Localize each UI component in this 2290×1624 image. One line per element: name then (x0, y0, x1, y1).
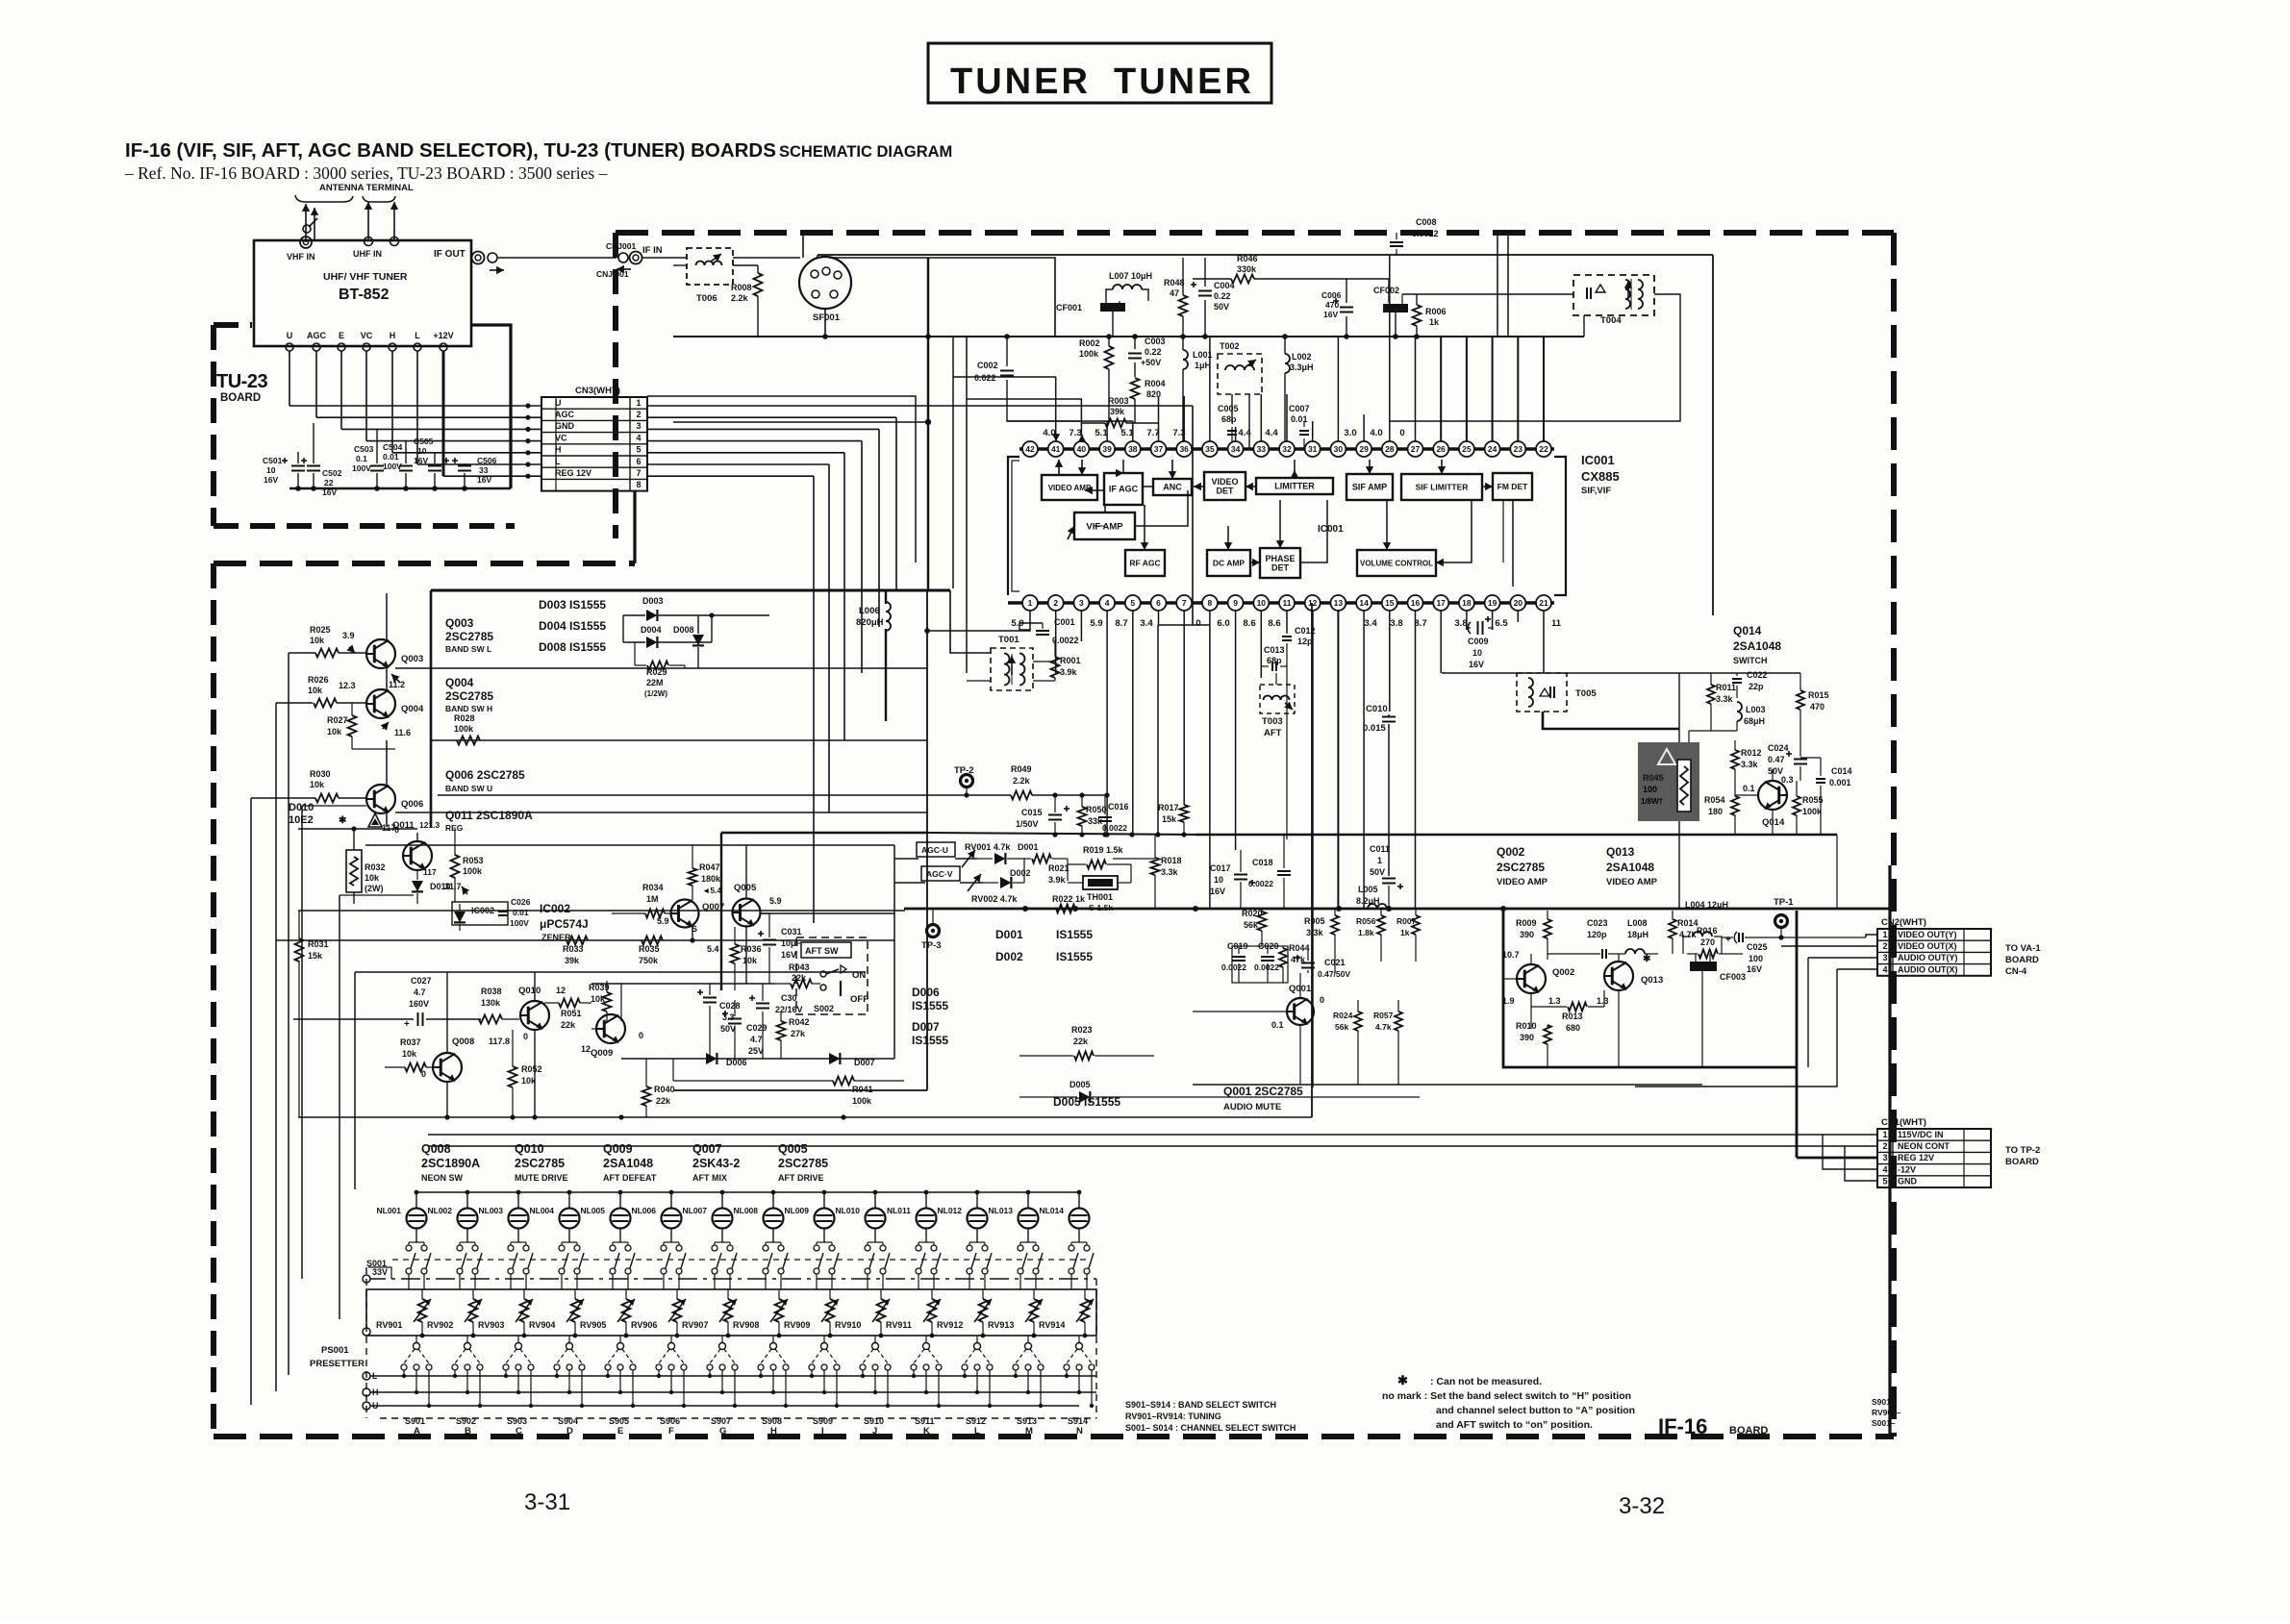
wire R046 rail (1193, 278, 1231, 280)
svg-text:12: 12 (556, 986, 566, 995)
svg-text:37: 37 (1154, 444, 1164, 454)
svg-text:3.3k: 3.3k (1716, 694, 1734, 704)
svg-text:10: 10 (1472, 648, 1482, 658)
svg-text:4.4: 4.4 (1238, 428, 1251, 438)
svg-text:R006: R006 (1425, 307, 1447, 316)
wire capacitor ground bus (289, 487, 511, 490)
svg-text:BAND SW L: BAND SW L (445, 644, 491, 654)
switch S001 section 13 (1018, 1245, 1023, 1251)
svg-text:100k: 100k (454, 724, 474, 734)
wires tuner rows to CN3 (289, 405, 541, 407)
svg-text:D007: D007 (912, 1020, 940, 1034)
svg-text:Q014: Q014 (1733, 624, 1762, 637)
svg-text:S914: S914 (1068, 1416, 1088, 1426)
svg-text:Q002: Q002 (1497, 845, 1525, 859)
svg-text:Q010: Q010 (515, 1142, 544, 1156)
wire Q005 out (760, 912, 894, 914)
lamp NL002 (458, 1209, 478, 1229)
svg-text:L: L (415, 331, 420, 340)
svg-text:✱: ✱ (339, 815, 347, 826)
svg-text:VIF AMP: VIF AMP (1086, 521, 1123, 532)
switch AFT SW (796, 937, 868, 1014)
svg-text:NL008: NL008 (733, 1206, 758, 1215)
svg-text:Q008: Q008 (452, 1037, 474, 1047)
svg-text:1: 1 (1882, 930, 1887, 939)
svg-text:100V: 100V (510, 918, 529, 928)
svg-text:3: 3 (1882, 953, 1887, 962)
wire pin12 long (1311, 603, 1313, 1117)
svg-text:S002: S002 (814, 1004, 834, 1013)
svg-text:RV902: RV902 (427, 1320, 453, 1330)
wire y268 right segment (829, 258, 1055, 337)
svg-text:470: 470 (1810, 702, 1824, 712)
svg-text:T005: T005 (1575, 688, 1597, 699)
svg-text:CF001: CF001 (1056, 303, 1082, 312)
svg-text:NL014: NL014 (1039, 1206, 1064, 1215)
svg-text:0.001: 0.001 (1829, 778, 1851, 787)
switch S001 section 11 (916, 1245, 921, 1251)
wires CN3 right drops (1192, 406, 1194, 625)
svg-text:RV905: RV905 (580, 1320, 606, 1330)
svg-text:0: 0 (1399, 428, 1404, 438)
svg-text:4: 4 (1882, 1164, 1887, 1174)
svg-text:S909: S909 (813, 1416, 833, 1426)
svg-text:1/50V: 1/50V (1016, 819, 1039, 829)
svg-text:VOLUME CONTROL: VOLUME CONTROL (1360, 559, 1433, 567)
svg-text:2SC2785: 2SC2785 (515, 1157, 565, 1170)
svg-text:5: 5 (1130, 598, 1135, 608)
svg-text:MUTE DRIVE: MUTE DRIVE (515, 1173, 568, 1183)
svg-text:C006: C006 (1321, 290, 1342, 300)
svg-text:0: 0 (1195, 618, 1200, 629)
svg-text:S908: S908 (762, 1416, 782, 1426)
svg-text:R021: R021 (1048, 863, 1070, 873)
svg-text:41: 41 (1051, 444, 1061, 454)
svg-text:10E2: 10E2 (289, 814, 314, 826)
svg-text:12p: 12p (1297, 637, 1313, 646)
svg-text:DET: DET (1217, 487, 1235, 496)
svg-text:14: 14 (1359, 598, 1369, 608)
svg-text:7: 7 (636, 468, 641, 478)
svg-text:S907: S907 (711, 1416, 731, 1426)
svg-text:3.9k: 3.9k (1048, 875, 1067, 885)
svg-text:56k: 56k (1244, 920, 1259, 930)
svg-text:N: N (1076, 1426, 1083, 1437)
switch S001 section 12 (967, 1245, 972, 1251)
svg-text:DET: DET (1271, 563, 1290, 573)
svg-text:22: 22 (324, 478, 334, 487)
svg-text:NEON SW: NEON SW (421, 1173, 464, 1183)
svg-text:CN1(WHT): CN1(WHT) (1881, 1117, 1926, 1128)
svg-text:5.1: 5.1 (1095, 428, 1108, 438)
svg-text:11: 11 (1551, 618, 1562, 629)
svg-text:Q004: Q004 (445, 676, 474, 689)
svg-text:R011: R011 (1716, 683, 1736, 692)
svg-text:3.3μH: 3.3μH (1290, 362, 1314, 372)
svg-text:SF001: SF001 (813, 312, 841, 323)
svg-text:S911: S911 (915, 1416, 935, 1426)
svg-text:T001: T001 (998, 635, 1019, 645)
svg-text:CNJ001: CNJ001 (606, 241, 636, 251)
svg-text:S901–S914 : BAND SELECT SWITCH: S901–S914 : BAND SELECT SWITCH (1125, 1400, 1276, 1410)
svg-text:CF003: CF003 (1720, 972, 1746, 982)
block VIF AMP (1074, 512, 1135, 539)
wires T001 hookup (1033, 661, 1055, 662)
svg-text:3.8: 3.8 (1454, 618, 1467, 629)
svg-text:PHASE: PHASE (1265, 554, 1295, 563)
switch S001 section 14 (1069, 1245, 1074, 1251)
wire pin1 jog (1019, 623, 1043, 630)
svg-text:R027: R027 (327, 715, 348, 725)
block VIDEO DET (1204, 472, 1246, 500)
svg-text:RV911: RV911 (886, 1320, 912, 1330)
switch S901 (414, 1343, 420, 1350)
svg-text:RV912: RV912 (937, 1320, 963, 1330)
svg-text:3: 3 (636, 421, 641, 431)
svg-text:C008: C008 (1416, 217, 1437, 227)
svg-text:100k: 100k (463, 866, 483, 876)
pot RV910 (877, 1299, 886, 1322)
svg-text:68p: 68p (1267, 656, 1282, 665)
svg-text:NL012: NL012 (937, 1206, 962, 1215)
svg-text:50V: 50V (1370, 867, 1385, 877)
svg-text:R005: R005 (1304, 916, 1325, 926)
svg-text:RV907: RV907 (682, 1320, 708, 1330)
svg-text:L002: L002 (1292, 352, 1312, 362)
svg-text:19: 19 (1488, 598, 1497, 608)
svg-text:VIDEO: VIDEO (1211, 477, 1238, 487)
svg-text:Q011 2SC1890A: Q011 2SC1890A (445, 809, 533, 822)
svg-text:R042: R042 (789, 1017, 810, 1027)
svg-text:2: 2 (1882, 941, 1887, 951)
block LIMITTER (1256, 478, 1333, 494)
svg-text:1M: 1M (646, 894, 659, 904)
svg-text:NL013: NL013 (988, 1206, 1013, 1215)
switch S903 (516, 1343, 522, 1350)
svg-text:22: 22 (1539, 444, 1548, 454)
svg-text:0.0022: 0.0022 (1248, 879, 1273, 888)
block DC AMP (1207, 550, 1250, 576)
svg-text:0.1: 0.1 (1271, 1020, 1284, 1030)
svg-text:D003: D003 (642, 596, 664, 606)
svg-text:33V: 33V (372, 1267, 388, 1277)
svg-text:REG 12V: REG 12V (555, 468, 591, 478)
svg-text:390: 390 (1520, 1033, 1534, 1042)
svg-text:NL004: NL004 (529, 1206, 554, 1215)
svg-text:10: 10 (1257, 598, 1267, 608)
svg-text:3.3k: 3.3k (1161, 867, 1179, 877)
svg-text:R035: R035 (639, 944, 660, 954)
svg-text:IS1555: IS1555 (912, 999, 948, 1012)
svg-text:VIDEO AMP: VIDEO AMP (1606, 877, 1658, 887)
svg-text:IS1555: IS1555 (1056, 950, 1093, 963)
switch S001 section 6 (661, 1245, 667, 1251)
svg-text:R049: R049 (1011, 764, 1032, 774)
svg-text:100: 100 (1749, 954, 1763, 963)
svg-text:S001– S014 : CHANNEL SELECT SW: S001– S014 : CHANNEL SELECT SWITCH (1125, 1423, 1296, 1433)
svg-text:D005: D005 (1070, 1080, 1091, 1089)
svg-text:AGC·V: AGC·V (926, 869, 953, 879)
svg-text:68μH: 68μH (1744, 716, 1765, 726)
svg-text:3.4: 3.4 (1140, 618, 1153, 629)
svg-text:C502: C502 (322, 468, 342, 478)
wire CF002 T004 rail (1402, 293, 1573, 295)
svg-text:IF OUT: IF OUT (434, 249, 466, 260)
svg-text:C016: C016 (1108, 802, 1129, 812)
block FM DET (1493, 473, 1532, 500)
svg-text:R054: R054 (1704, 795, 1725, 805)
svg-text:RF AGC: RF AGC (1129, 559, 1160, 568)
svg-text:D010: D010 (289, 802, 314, 813)
svg-text:2SK43-2: 2SK43-2 (692, 1157, 740, 1170)
switch S001 section 3 (508, 1245, 514, 1251)
pot RV903 (520, 1299, 529, 1322)
svg-text:BAND SW H: BAND SW H (445, 704, 492, 713)
switch S902 (465, 1343, 471, 1350)
svg-text:117.8: 117.8 (489, 1037, 510, 1046)
svg-text:SCHEMATIC DIAGRAM: SCHEMATIC DIAGRAM (779, 143, 952, 161)
svg-text:Q010: Q010 (518, 986, 541, 996)
svg-text:4.7: 4.7 (414, 987, 426, 997)
svg-text:11.6: 11.6 (394, 728, 411, 737)
svg-text:C503: C503 (354, 444, 374, 454)
transistor Q011 (368, 813, 382, 827)
svg-text:D004 IS1555: D004 IS1555 (539, 619, 606, 633)
svg-text:22k: 22k (656, 1096, 671, 1106)
svg-text:1: 1 (1882, 1130, 1887, 1139)
svg-text:RV904: RV904 (529, 1320, 555, 1330)
svg-text:: Can not be measured.: : Can not be measured. (1430, 1376, 1542, 1387)
svg-text:6: 6 (636, 457, 641, 466)
border IF-16 left dashed (211, 563, 216, 1437)
svg-text:0.22: 0.22 (1214, 291, 1231, 301)
lamp NL011 (917, 1209, 937, 1229)
svg-text:35: 35 (1205, 444, 1215, 454)
svg-text:NL006: NL006 (631, 1206, 656, 1215)
svg-text:Q003: Q003 (401, 654, 423, 664)
block ANC (1153, 479, 1192, 495)
block SIF AMP (1346, 474, 1393, 500)
svg-text:50V: 50V (720, 1024, 736, 1034)
svg-text:4.0: 4.0 (1370, 428, 1382, 438)
switch S001 section 2 (457, 1245, 463, 1251)
svg-text:K: K (923, 1426, 930, 1437)
svg-text:1.3: 1.3 (1548, 996, 1561, 1006)
svg-text:5.4: 5.4 (707, 944, 719, 954)
svg-text:R016: R016 (1697, 926, 1718, 936)
wire T004 connections (1583, 315, 1585, 337)
video amp thick box (1503, 911, 1797, 1067)
svg-text:IC001: IC001 (1318, 524, 1344, 535)
switch S001 section 4 (559, 1245, 565, 1251)
IC001 bottom pins 1-21 (1022, 595, 1038, 611)
svg-text:SIF AMP: SIF AMP (1352, 483, 1387, 492)
bus 33V dash-dot (366, 1278, 1096, 1280)
svg-text:15: 15 (1385, 598, 1395, 608)
svg-text:100: 100 (1643, 785, 1657, 794)
svg-text:AGC: AGC (555, 410, 575, 419)
svg-text:390: 390 (1520, 930, 1534, 939)
svg-text:R010: R010 (1516, 1021, 1537, 1031)
svg-text:VIDEO AMP: VIDEO AMP (1497, 877, 1548, 887)
svg-text:1k: 1k (1429, 317, 1440, 327)
svg-text:4.4: 4.4 (1265, 428, 1278, 438)
svg-text:RV903: RV903 (478, 1320, 504, 1330)
svg-text:3.9: 3.9 (342, 631, 355, 640)
svg-text:2SC2785: 2SC2785 (445, 689, 493, 703)
svg-text:AFT DRIVE: AFT DRIVE (778, 1173, 824, 1183)
box AGC-U (917, 842, 955, 857)
svg-text:R044: R044 (1289, 943, 1310, 953)
IC pin up wires (1055, 377, 1057, 441)
svg-text:C504: C504 (383, 442, 403, 452)
svg-text:2: 2 (1053, 598, 1058, 608)
lamp NL009 (815, 1209, 835, 1229)
wires into CN1 (428, 1134, 1877, 1136)
svg-text:115V/DC IN: 115V/DC IN (1898, 1130, 1944, 1139)
svg-text:AUDIO OUT(X): AUDIO OUT(X) (1898, 964, 1958, 974)
svg-text:10μF: 10μF (781, 938, 802, 948)
svg-text:R030: R030 (310, 769, 331, 779)
svg-text:1μH: 1μH (1195, 361, 1211, 370)
svg-text:C021: C021 (1324, 958, 1346, 967)
svg-text:+12V: +12V (433, 331, 453, 340)
svg-text:C009: C009 (1468, 637, 1489, 646)
svg-text:4: 4 (1105, 598, 1110, 608)
svg-text:Q006: Q006 (401, 799, 423, 810)
switch S001 section 7 (712, 1245, 717, 1251)
wire IF OUT to CNJ001 (498, 257, 617, 259)
svg-text:UHF IN: UHF IN (353, 249, 382, 259)
wire row1128 (1193, 1084, 1702, 1086)
svg-text:10k: 10k (310, 780, 325, 789)
transistor Q007 (671, 900, 699, 928)
svg-text:AFT MIX: AFT MIX (692, 1173, 727, 1183)
switch S908 (770, 1343, 777, 1350)
svg-text:and AFT switch to “on” po: and AFT switch to “on” position. (1436, 1419, 1593, 1431)
svg-text:0.1: 0.1 (1743, 784, 1755, 793)
block VIDEO AMP (1042, 475, 1097, 500)
pot RV914 (1081, 1299, 1090, 1322)
svg-text:R003: R003 (1108, 396, 1129, 406)
svg-text:2SC2785: 2SC2785 (445, 630, 493, 643)
svg-text:R040: R040 (654, 1085, 675, 1094)
svg-text:29: 29 (1359, 444, 1369, 454)
svg-text:C506: C506 (477, 456, 497, 465)
svg-text:NL009: NL009 (784, 1206, 809, 1215)
svg-text:10k: 10k (365, 873, 380, 883)
wire band box rows (395, 667, 927, 669)
svg-text:20: 20 (1514, 598, 1523, 608)
svg-text:0.0022: 0.0022 (1102, 823, 1127, 833)
svg-text:10k: 10k (327, 727, 342, 737)
svg-text:18: 18 (1462, 598, 1472, 608)
svg-text:RV901–: RV901– (1872, 1408, 1901, 1417)
wire nested L2 (673, 421, 928, 423)
svg-text:DC AMP: DC AMP (1213, 559, 1246, 568)
switch S001 section 5 (610, 1245, 616, 1251)
svg-text:PS001: PS001 (321, 1345, 349, 1356)
svg-text:D003 IS1555: D003 IS1555 (539, 598, 606, 612)
svg-text:R057: R057 (1373, 1011, 1394, 1020)
svg-text:Q014: Q014 (1762, 817, 1785, 828)
antenna VHF arrows (305, 204, 307, 242)
pot RV901 (418, 1299, 427, 1322)
svg-text:7.7: 7.7 (1146, 428, 1159, 438)
svg-text:◄5.4: ◄5.4 (702, 886, 722, 895)
svg-text:11.2: 11.2 (389, 680, 405, 689)
svg-text:1.3: 1.3 (1597, 996, 1609, 1006)
svg-text:3.3k: 3.3k (1741, 760, 1759, 769)
box AGC-V (921, 866, 960, 881)
svg-text:VC: VC (555, 433, 567, 442)
svg-text:IS1555: IS1555 (1056, 928, 1093, 941)
wire y868 rail (927, 833, 1195, 835)
svg-text:Q013: Q013 (1641, 975, 1663, 986)
svg-text:+50V: +50V (1141, 358, 1161, 367)
svg-text:GND: GND (555, 421, 575, 431)
filter CF003 (1690, 962, 1717, 971)
svg-text:Q001 2SC2785: Q001 2SC2785 (1223, 1085, 1303, 1098)
lamp NL013 (1019, 1209, 1039, 1229)
svg-text:0.0022: 0.0022 (1052, 636, 1079, 645)
svg-text:S001–: S001– (1872, 1418, 1896, 1428)
svg-text:117: 117 (423, 867, 437, 877)
svg-text:S905: S905 (609, 1416, 629, 1426)
svg-text:100k: 100k (852, 1096, 872, 1106)
svg-text:L006: L006 (859, 606, 880, 616)
svg-text:D008: D008 (673, 625, 694, 635)
svg-text:C001: C001 (1054, 617, 1075, 627)
svg-text:31: 31 (1308, 444, 1318, 454)
svg-text:ANC: ANC (1163, 483, 1182, 492)
svg-text:25V: 25V (748, 1046, 764, 1056)
IC pin down wires (1029, 611, 1031, 627)
wire pin1 jog left (927, 627, 1030, 631)
svg-text:0: 0 (639, 1031, 643, 1040)
svg-text:6.5: 6.5 (1495, 618, 1508, 629)
svg-text:L003: L003 (1746, 705, 1766, 714)
svg-text:L: L (974, 1426, 980, 1437)
svg-text:D001: D001 (995, 928, 1023, 941)
wire lower rail (298, 1116, 1312, 1118)
svg-text:16V: 16V (1469, 660, 1484, 669)
svg-text:(2W): (2W) (365, 884, 384, 893)
svg-text:Q013: Q013 (1606, 845, 1635, 859)
svg-text:1: 1 (1028, 598, 1033, 608)
svg-text:L007 10μH: L007 10μH (1109, 271, 1152, 281)
svg-text:56k: 56k (1335, 1022, 1348, 1032)
svg-text:C014: C014 (1831, 766, 1852, 776)
svg-text:R034: R034 (642, 883, 664, 892)
svg-text:R056: R056 (1356, 916, 1376, 926)
lamp NL004 (560, 1209, 580, 1229)
svg-text:1.8k: 1.8k (1358, 928, 1374, 937)
lamp NL008 (764, 1209, 784, 1229)
switch S914 (1076, 1343, 1083, 1350)
svg-text:T006: T006 (696, 293, 717, 304)
svg-text:TO TP-2: TO TP-2 (2005, 1145, 2040, 1156)
svg-text:– Ref. No. IF-16 BOARD : 3000: – Ref. No. IF-16 BOARD : 3000 series, TU… (124, 163, 608, 183)
svg-text:T002: T002 (1220, 341, 1240, 351)
pot RV906 (673, 1299, 682, 1322)
title box TUNER TUNER (928, 43, 1271, 103)
svg-text:+: + (404, 1019, 410, 1030)
svg-text:Q007: Q007 (692, 1142, 722, 1156)
svg-text:D006: D006 (912, 986, 940, 999)
svg-text:5: 5 (636, 445, 641, 455)
svg-text:G: G (719, 1426, 726, 1437)
